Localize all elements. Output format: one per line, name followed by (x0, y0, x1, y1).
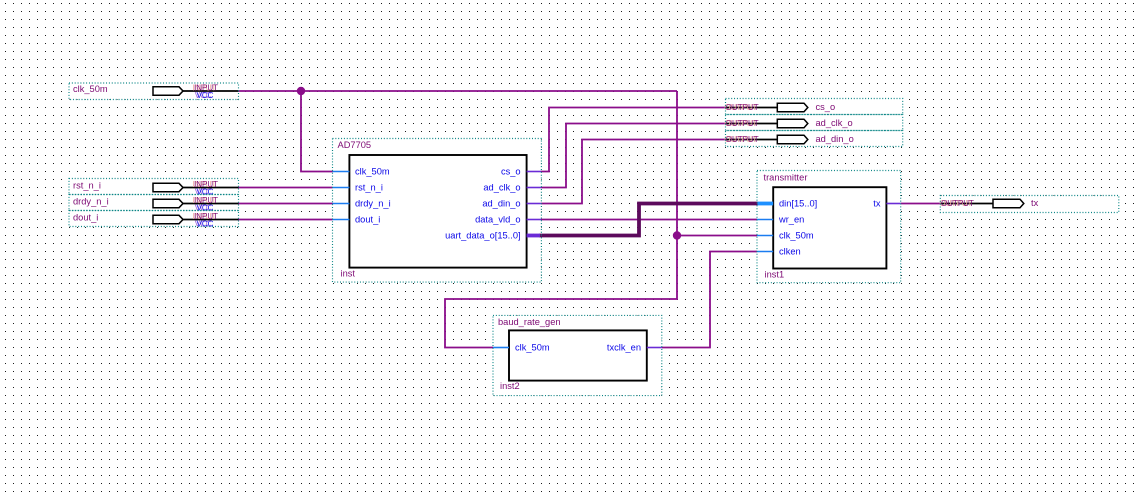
pin stub AD7705.clk_50m (333, 171, 350, 173)
input pin clk_50m (69, 83, 239, 100)
svg-text:AD7705: AD7705 (338, 140, 372, 150)
input pin rst_n_i (69, 179, 239, 197)
pin stub AD7705.ad_din_o (527, 203, 541, 205)
svg-text:VCC: VCC (197, 91, 214, 100)
svg-text:rst_n_i: rst_n_i (73, 181, 101, 191)
svg-text:wr_en: wr_en (778, 215, 804, 225)
svg-text:uart_data_o[15..0]: uart_data_o[15..0] (445, 231, 520, 241)
wire net rst_n_i: input pin to AD7705 rst_n_i pin (239, 187, 333, 189)
svg-text:rst_n_i: rst_n_i (355, 183, 383, 193)
svg-text:clk_50m: clk_50m (779, 231, 814, 241)
wire net clk_50m: input pin to right vertical trunk (239, 90, 678, 92)
selection bounding box baud_rate_gen (493, 315, 662, 395)
block U:inst AD7705 body (349, 155, 526, 268)
pin stub transmitter.clk_50m (757, 235, 773, 237)
junction on net clk_50m at input branch (297, 87, 305, 95)
wire net dout_i: input pin to AD7705 dout_i pin (239, 219, 333, 221)
svg-text:drdy_n_i: drdy_n_i (73, 197, 109, 207)
svg-text:inst2: inst2 (500, 381, 520, 391)
wire net ad_din_o: AD7705 ad_din_o pin to OUTPUT pin ad_din_o (541, 140, 726, 204)
bus net uart_data_o[15..0]: AD7705 to transmitter din[15..0] (539, 204, 758, 236)
wire net tx: transmitter tx pin to OUTPUT pin tx (901, 203, 941, 205)
pin stub AD7705.cs_o (527, 171, 541, 173)
selection bounding box AD7705 (333, 139, 542, 283)
svg-text:VCC: VCC (197, 220, 214, 229)
svg-text:tx: tx (873, 199, 881, 209)
svg-text:tx: tx (1031, 198, 1039, 208)
pin stub AD7705.ad_clk_o (527, 187, 541, 189)
bus pin stub AD7705.uart_data_o[15..0] (527, 234, 540, 238)
svg-text:din[15..0]: din[15..0] (779, 199, 817, 209)
svg-text:dout_i: dout_i (73, 213, 98, 223)
svg-text:transmitter: transmitter (764, 173, 808, 183)
input pin drdy_n_i (69, 195, 239, 213)
svg-text:drdy_n_i: drdy_n_i (355, 199, 391, 209)
pin stub baud_rate_gen.txclk_en (647, 347, 662, 349)
svg-text:ad_clk_o: ad_clk_o (483, 183, 520, 193)
input pin dout_i (69, 211, 239, 229)
wire net ad_clk_o: AD7705 ad_clk_o pin to OUTPUT pin ad_clk_o (541, 124, 726, 188)
wire net data_vld_o: AD7705 data_vld_o pin to transmitter wr_en pin (541, 219, 757, 221)
pin stub transmitter.wr_en (757, 219, 773, 221)
output pin ad_clk_o (724, 115, 903, 131)
pin stub transmitter.tx (886, 203, 900, 205)
svg-text:clken: clken (779, 247, 801, 257)
wire net clk_50m: vertical trunk down and around to baud_rate_gen clk_50m pin (445, 91, 677, 348)
svg-text:dout_i: dout_i (355, 215, 380, 225)
svg-text:ad_din_o: ad_din_o (816, 134, 854, 144)
block U:inst1 transmitter body (773, 187, 886, 268)
svg-text:OUTPUT: OUTPUT (726, 103, 759, 112)
output pin tx (939, 196, 1118, 213)
junction on net clk_50m at transmitter branch (673, 231, 681, 239)
svg-text:OUTPUT: OUTPUT (726, 135, 759, 144)
svg-text:inst1: inst1 (765, 270, 785, 280)
svg-text:ad_clk_o: ad_clk_o (816, 118, 853, 128)
bus pin stub transmitter.din[15..0] (758, 202, 774, 206)
svg-text:baud_rate_gen: baud_rate_gen (498, 317, 561, 327)
svg-text:OUTPUT: OUTPUT (941, 199, 974, 208)
output pin cs_o (724, 99, 903, 115)
svg-text:OUTPUT: OUTPUT (726, 119, 759, 128)
pin stub AD7705.dout_i (333, 219, 350, 221)
selection bounding box transmitter (757, 171, 901, 283)
svg-text:txclk_en: txclk_en (607, 343, 641, 353)
svg-text:ad_din_o: ad_din_o (482, 199, 520, 209)
svg-text:clk_50m: clk_50m (515, 343, 550, 353)
svg-text:clk_50m: clk_50m (355, 167, 390, 177)
svg-text:inst: inst (341, 269, 356, 279)
svg-text:clk_50m: clk_50m (73, 84, 108, 94)
pin stub transmitter.clken (757, 251, 773, 253)
output pin ad_din_o (724, 131, 903, 147)
wire net drdy_n_i: input pin to AD7705 drdy_n_i pin (239, 203, 333, 205)
svg-text:cs_o: cs_o (816, 102, 836, 112)
wire net clk_50m: branch from junction to transmitter clk_50m pin (677, 235, 757, 237)
svg-text:data_vld_o: data_vld_o (475, 215, 521, 225)
pin stub AD7705.drdy_n_i (333, 203, 350, 205)
wire net cs_o: AD7705 cs_o pin to OUTPUT pin cs_o (541, 108, 726, 172)
pin stub AD7705.rst_n_i (333, 187, 350, 189)
wire net clk_50m: branch from junction down to AD7705 clk_50m pin (301, 91, 333, 172)
pin stub AD7705.data_vld_o (527, 219, 541, 221)
wire net txclk_en: baud_rate_gen txclk_en pin to transmitter clken pin (662, 252, 757, 348)
svg-text:cs_o: cs_o (501, 167, 521, 177)
block U:inst2 baud_rate_gen body (509, 330, 647, 380)
pin stub baud_rate_gen.clk_50m (493, 347, 509, 349)
